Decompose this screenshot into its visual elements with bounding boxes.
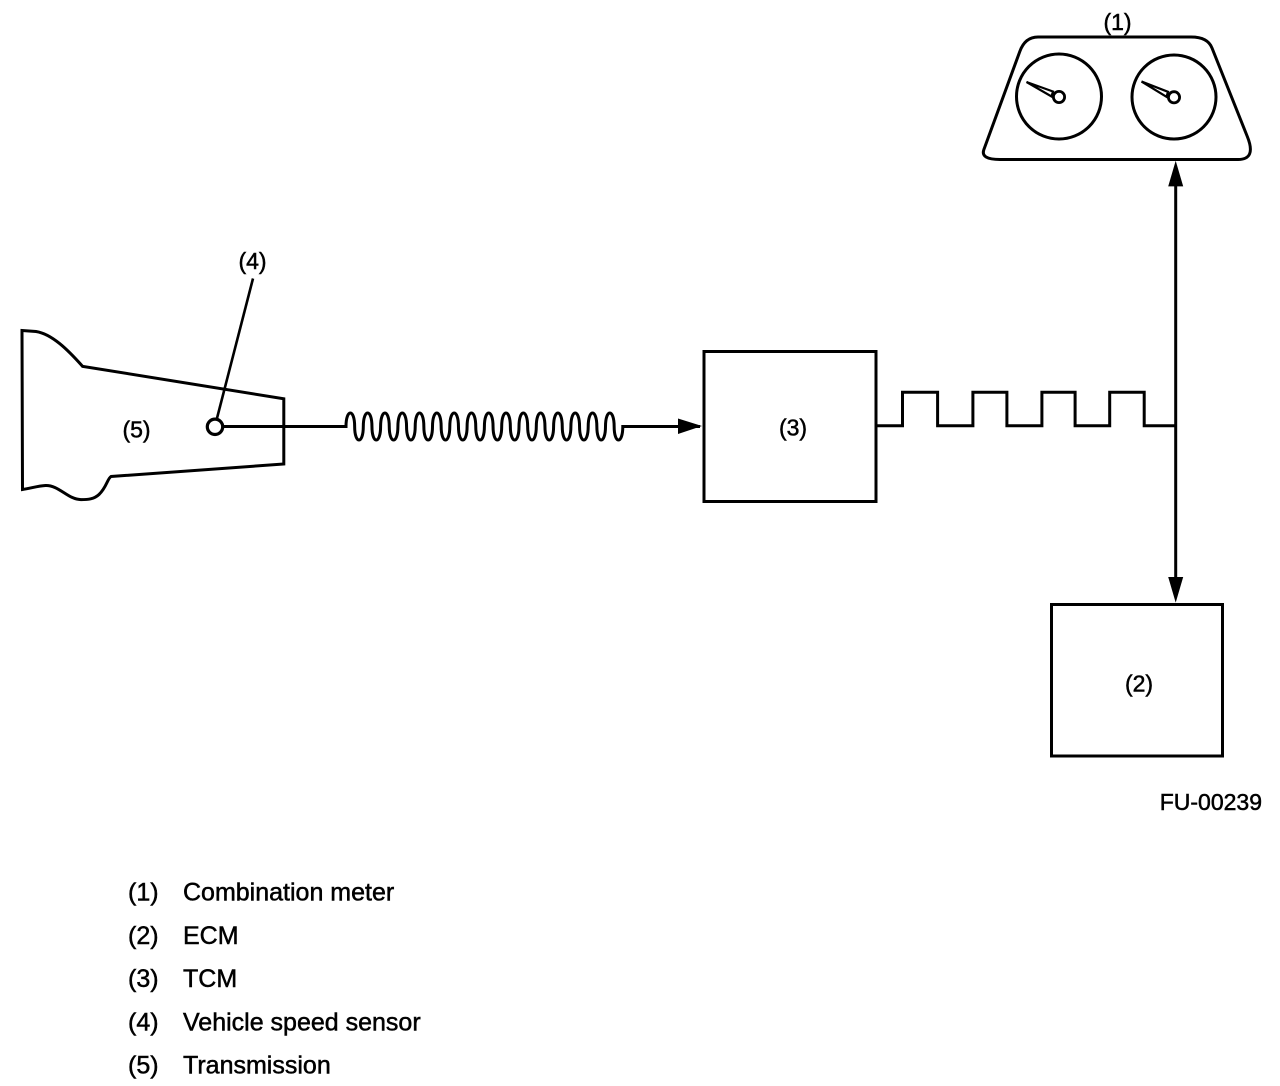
svg-text:TCM: TCM <box>183 965 237 993</box>
svg-text:ECM: ECM <box>183 922 239 950</box>
svg-text:(2): (2) <box>1125 671 1153 697</box>
svg-text:(3): (3) <box>779 415 807 441</box>
svg-text:Transmission: Transmission <box>183 1052 331 1080</box>
svg-text:(3): (3) <box>128 965 159 993</box>
svg-text:(5): (5) <box>122 417 150 443</box>
svg-text:(2): (2) <box>128 922 159 950</box>
svg-text:FU-00239: FU-00239 <box>1160 789 1262 815</box>
svg-text:(4): (4) <box>128 1008 159 1036</box>
svg-text:(4): (4) <box>238 248 266 274</box>
svg-text:Vehicle speed sensor: Vehicle speed sensor <box>183 1008 421 1036</box>
svg-text:(5): (5) <box>128 1052 159 1080</box>
svg-text:(1): (1) <box>1103 9 1131 35</box>
svg-text:(1): (1) <box>128 879 159 907</box>
svg-text:Combination meter: Combination meter <box>183 879 394 907</box>
